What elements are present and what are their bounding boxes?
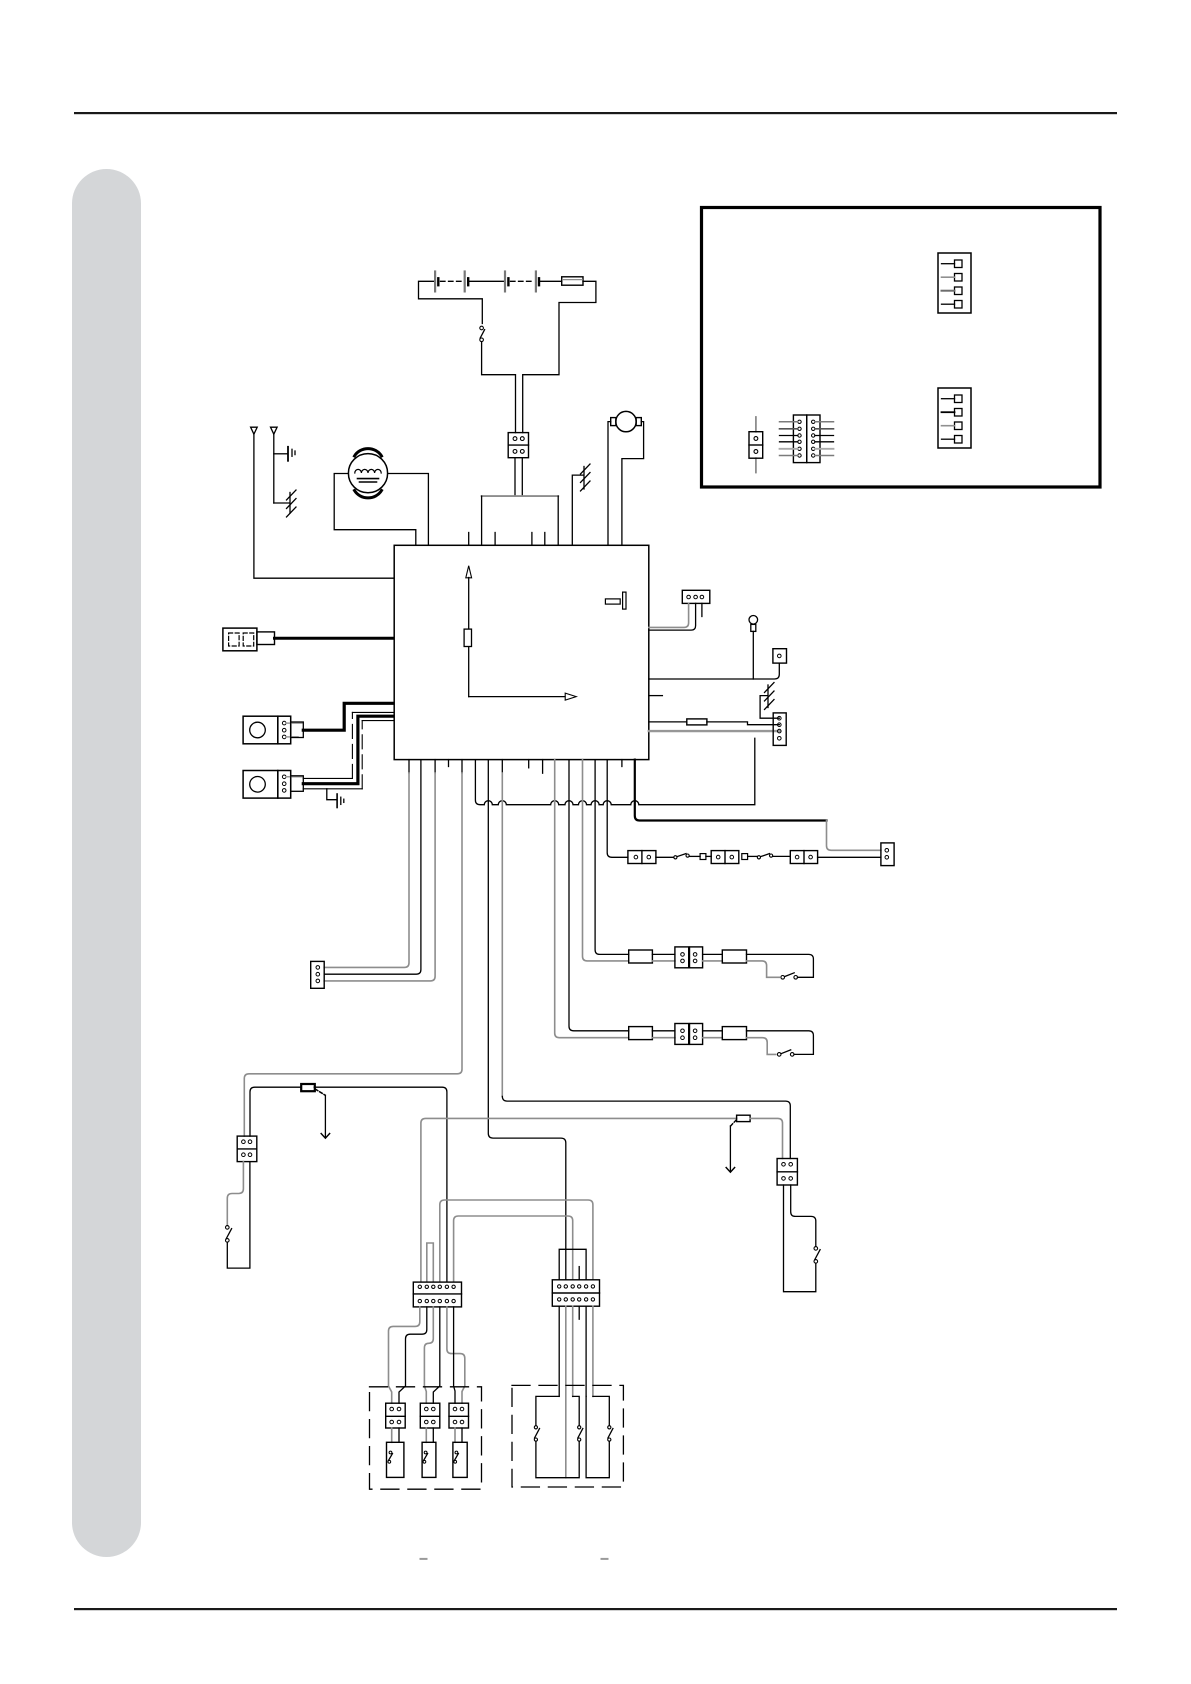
wire fuse F5 to CN3 [707, 722, 779, 725]
capacitor C1 (antenna branch) [274, 447, 295, 461]
wire stub X2 pin4 [578, 1306, 580, 1319]
connector CN4 (3-pin left) [311, 961, 325, 988]
wire ECU pin to CN4 pin1 [408, 760, 410, 773]
jumper staple X2 pins1-5 [559, 1249, 586, 1280]
connector CN1 (3-pin, right of ECU) [649, 590, 710, 630]
wire stub X2 pin4 upper [578, 1267, 580, 1280]
wire chain 4 [748, 855, 758, 857]
wire X1 pin6 to C3 [454, 1307, 455, 1403]
connector T (2x2, left switch) [237, 1136, 257, 1162]
wire row1 to switch (gray) [747, 961, 780, 977]
connector CN9 (fuse chain box 3) [790, 851, 817, 864]
sensor B2 (rear, 3-pin) [243, 712, 394, 798]
connector pair CN5 (row1) [675, 947, 703, 968]
switch SW2 (side stand) loop [226, 1162, 250, 1269]
main fuse F0 [562, 277, 583, 285]
wire CN1 pin2 to ECU [649, 603, 696, 630]
wire generator right to ECU [388, 474, 429, 546]
indicator lamp L1 [649, 616, 780, 680]
connector CN8 (fuse chain box 2) [711, 851, 739, 864]
timing axis vertical arrow [468, 578, 470, 697]
connector C3 (2x2 coil lead) [449, 1403, 469, 1428]
connector CN-C (2-pin inline, legend) [749, 417, 763, 473]
wire starter right brush loop [622, 422, 644, 546]
wire X1 pin1 to C1 [389, 1307, 420, 1403]
header rule [74, 112, 1117, 114]
fuse F9 (row1 right) [722, 950, 746, 963]
ground G4 (CN3 top) [760, 683, 779, 719]
battery cell 1 plates [434, 272, 436, 292]
timing axis horizontal arrow [469, 696, 565, 698]
wire battery top left [419, 281, 483, 323]
wire ECU to relay connector V (gray drop) [501, 760, 503, 773]
switch SW5 (row2) [777, 1050, 794, 1056]
main switch (battery drop) [480, 326, 484, 330]
connector E2 (2x2 battery lead) [508, 433, 528, 458]
injector Q1 [387, 1442, 404, 1477]
connector V (2x2, right switch) [777, 1159, 797, 1186]
connector X2 (6-pin dual row) [552, 1280, 599, 1306]
switch SW4 (row1) [781, 973, 798, 979]
wire X2 pin5 drop [585, 1306, 587, 1396]
footer rule [74, 1608, 1117, 1610]
connector pair CN6 (row2) [675, 1024, 703, 1045]
antenna AE1 [251, 427, 395, 578]
wire C3 to injector Q3 [454, 1428, 456, 1442]
jumper staple X1 pins2-3 [427, 1243, 434, 1282]
arrow feed A (to other circuit) [315, 1089, 329, 1138]
resistor R-a (small square) [700, 854, 706, 860]
wire dashed cell link 2 [511, 280, 534, 282]
connector C2 (2x2 coil lead) [420, 1403, 440, 1428]
connector X1 (6-pin dual row) [413, 1282, 461, 1307]
wire ECU to fuse row 1 (black) [595, 760, 629, 955]
enclosure dashed box (injectors) [370, 1387, 482, 1489]
pin stub top 4 [544, 533, 546, 546]
wire pair below connector [514, 458, 516, 496]
wire CN1 pin3 stub [701, 603, 703, 616]
wire starter left brush to ECU [608, 422, 611, 546]
wire link X1pin6 to X2pin3 [454, 1216, 573, 1282]
fuse F8 (row1) [629, 950, 653, 963]
battery cell 2 plates [464, 272, 466, 292]
wire row2 to switch (black) [747, 1031, 814, 1055]
switch SW3 (brake) loop [784, 1185, 821, 1292]
wire C2 to injector Q2 [425, 1428, 427, 1442]
wire cell4 to fuse [539, 280, 562, 282]
wires row1 connector to fuse F9 [703, 953, 723, 955]
fuse F10 (row2) [629, 1027, 653, 1040]
wire chain 1 [656, 856, 674, 858]
injector Q2 [422, 1442, 436, 1477]
wire chain 3 [706, 855, 711, 857]
generator / magneto G [334, 449, 428, 546]
wire row2 to switch (gray) [747, 1038, 776, 1055]
wire CN1 pin1 to ECU [649, 603, 689, 627]
wire chain 2 [689, 855, 700, 857]
pin stub bottom D [621, 760, 623, 767]
wires row2 connector to fuse F11 [703, 1030, 723, 1032]
ignition key switch SW1 [223, 628, 394, 651]
solenoid Q4 (left) [534, 1396, 582, 1477]
wire sensor B2 signal 2 [303, 788, 362, 790]
wire ECU to relay connector T (left drop) [461, 760, 463, 773]
caption dash right [602, 1558, 608, 1560]
pin stub bottom C [542, 760, 544, 774]
wire battery top right [523, 281, 596, 432]
pin stub bottom B [528, 760, 530, 768]
fuse F11 (row2 right) [722, 1027, 746, 1040]
wire X2 pin1 drop [558, 1306, 560, 1396]
wire X1 pin3 to C2 [424, 1307, 433, 1403]
wire X1 pin5 to C3 [447, 1307, 465, 1403]
battery cell 4 plates [535, 272, 537, 292]
wire chain 5 [773, 855, 791, 857]
pin stub bottom A [448, 760, 450, 767]
wire generator left to ECU [334, 474, 416, 546]
battery cell 3 plates [504, 272, 506, 292]
wire ECU pin to CN4 pin2 [324, 760, 421, 975]
wire X2 pin6 drop [592, 1306, 594, 1396]
wire ECU to fuse row 1 (gray) [583, 760, 629, 961]
switch SW6 (chain) [674, 854, 689, 859]
wire X1 pin4 to C2 [433, 1307, 440, 1403]
connector CN2 (1-pin) [773, 649, 787, 663]
ground G2 (antenna) [274, 490, 296, 517]
wire ECU to fuse chain [607, 760, 628, 858]
enclosure dashed box (solenoids) [512, 1385, 623, 1487]
wire ECU to tail feed (thick) [635, 760, 827, 821]
wire X2 pin2 drop (gray, through coil) [565, 1306, 567, 1478]
wire sensor B1 to ECU (thick) [303, 703, 394, 730]
wire chain 6 [818, 856, 881, 858]
caption dash left [421, 1558, 427, 1560]
wire link X1pin4 to X2pin6 [440, 1200, 593, 1282]
battery pack wiring (top feed) [419, 272, 596, 546]
wire switch to pair [482, 342, 516, 433]
fuse F5 [649, 719, 780, 725]
wire tail feed drop [827, 821, 881, 851]
wire ECU to fuse row 2 (gray) [555, 760, 629, 1038]
connector CN-D (12-pin dual row, legend) [780, 415, 834, 463]
injector Q3 [453, 1442, 467, 1477]
pickup element (rect on axis) [464, 629, 471, 646]
wire dashed cell link 1 [441, 280, 463, 282]
wire ground bus (ECU to CN3 pin4, with crossovers) [475, 738, 754, 804]
wire cell2 to cell3 [468, 280, 505, 282]
ground G1 (engine, near starter) [572, 464, 590, 545]
wire ECU to fuse row 2 (black) [569, 760, 629, 1031]
pin stub top 3 [531, 533, 533, 546]
wire lamp feed [649, 663, 780, 679]
arrow feed B (to other circuit) [726, 1120, 736, 1172]
wires row1 fuse to connector [652, 953, 675, 955]
pin stub top 2 [494, 533, 496, 546]
wire row1 to switch (black) [747, 954, 814, 977]
antenna AE2 [271, 427, 278, 503]
wire ECU to lamp connector X2 feed [488, 760, 566, 1280]
connector CN-B (4-pin, legend bottom) [938, 388, 971, 448]
wire sensor B2 power (thick) [303, 716, 394, 784]
connector CN-A (4-pin, legend top) [938, 253, 971, 313]
ground G3 (sensor return) [327, 789, 344, 808]
wire key switch to ECU (thick) [275, 637, 395, 640]
wire X1 pin2 to C1 [399, 1307, 427, 1403]
pin stub right (ECU) [649, 695, 663, 697]
switch SW7 (chain) [757, 854, 772, 859]
wire X2 pin3 drop [572, 1306, 574, 1396]
coil winding [355, 469, 381, 473]
connector CN10 (2-pin end) [881, 843, 894, 866]
starter motor M1 [608, 411, 644, 545]
connector CN3 (4-pin) [773, 713, 786, 746]
wire C1 to injector Q1 [391, 1428, 393, 1442]
trigger mark vertical [623, 592, 626, 609]
wire ECU to CN3 pin3 (gray) [649, 730, 780, 732]
pin stub top 1 [468, 533, 470, 546]
wire ECU pin to CN4 pin3 [434, 760, 436, 773]
legend box frame [702, 208, 1101, 488]
connector C1 (2x2 coil lead) [386, 1403, 406, 1428]
wire sensor B2 signal 1 [303, 777, 352, 779]
node feed bar into ECU [482, 495, 559, 497]
wire fused feed (right fuse F7) [421, 1115, 783, 1282]
wire fused feed (left fuse F6) [250, 1084, 447, 1282]
trigger mark horizontal [605, 599, 620, 604]
connector CN7 (fuse chain box 1) [628, 851, 656, 864]
resistor R-b (small square) [742, 854, 748, 860]
left margin tab bar [72, 169, 141, 1557]
wires row2 fuse to connector [652, 1030, 675, 1032]
solenoid Q5 (right) [586, 1396, 613, 1477]
ECU / CDI unit U1 [394, 533, 649, 760]
sensor B1 (front, 3-pin) [243, 703, 394, 744]
